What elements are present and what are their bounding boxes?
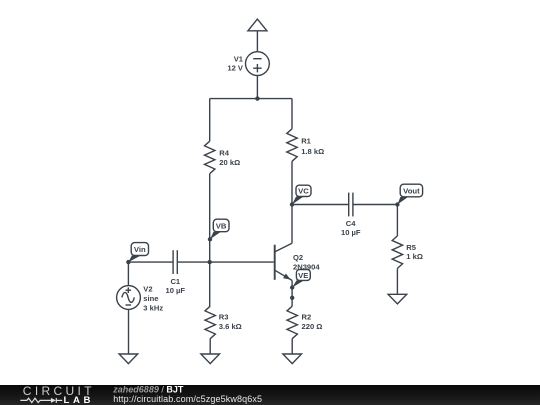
CircuitLab footer bar [0, 385, 540, 405]
node junction top rail [255, 96, 259, 100]
wire C1 to VB junction [177, 261, 209, 263]
label R4 20 kOhm [219, 149, 240, 168]
label C1 10 uF [166, 277, 186, 295]
label Q2 2N3904 [293, 253, 320, 272]
svg-text:3 kHz: 3 kHz [143, 304, 163, 313]
svg-text:10 µF: 10 µF [341, 228, 361, 237]
svg-text:sine: sine [143, 294, 158, 303]
ground under R5 [388, 294, 407, 304]
resistor R2 [287, 306, 297, 339]
wire VC to C4 [292, 204, 349, 206]
wire top rail to R1 [291, 99, 293, 129]
wire V1 bottom to top rail [256, 76, 258, 99]
svg-text:V2: V2 [143, 285, 152, 294]
wire R4 to VB node and input junction [209, 174, 211, 262]
transistor Q2 [275, 243, 292, 280]
svg-text:Q2: Q2 [293, 253, 303, 262]
svg-text:R2: R2 [302, 313, 312, 322]
wire C4 to Vout node [353, 204, 398, 206]
resistor R1 [287, 129, 297, 162]
wire Vin to C1 [128, 261, 173, 263]
resistor R5 [392, 236, 402, 269]
node VE dot [290, 285, 294, 289]
node label VE [292, 270, 310, 288]
label R5 1 kOhm [406, 243, 423, 261]
node label Vin [128, 243, 148, 263]
CircuitLab logo resistor squiggle and diode [20, 398, 62, 403]
svg-text:12 V: 12 V [227, 64, 244, 73]
svg-text:C1: C1 [170, 277, 180, 286]
wire top rail [210, 98, 292, 100]
wire junction down to R3 [209, 262, 211, 306]
node VB dot [208, 237, 212, 241]
svg-text:http://circuitlab.com/c5zge5kw: http://circuitlab.com/c5zge5kw8q6x5 [113, 394, 262, 404]
svg-text:220 Ω: 220 Ω [302, 322, 323, 331]
label R3 3.6 kOhm [219, 313, 242, 331]
svg-text:VC: VC [298, 187, 309, 196]
svg-text:VE: VE [298, 271, 308, 280]
node label Vout [397, 184, 422, 204]
resistor R3 [205, 306, 215, 339]
wire Vin node down to V2 [127, 262, 129, 286]
node label VB [210, 219, 229, 239]
wire R5 to ground [396, 268, 398, 294]
wire top rail to R4 [209, 99, 211, 142]
node emitter junction dot [290, 296, 294, 300]
voltage source V2 sine [117, 286, 141, 310]
label C4 10 uF [341, 219, 361, 237]
capacitor C4 [349, 193, 353, 217]
label R2 220 Ohm [302, 313, 323, 331]
svg-text:Vin: Vin [134, 245, 146, 254]
transistor Q2 collector wire [291, 205, 293, 244]
wire arrow to V1 top [256, 31, 258, 52]
svg-text:R4: R4 [219, 149, 229, 158]
node label VC [292, 185, 311, 204]
label R1 1.8 kOhm [301, 136, 324, 156]
capacitor C1 [173, 250, 177, 274]
ground under V2 [119, 354, 138, 364]
wire R1 to VC node [291, 161, 293, 204]
node VC dot [290, 202, 294, 206]
wire Vout node down to R5 [396, 205, 398, 236]
wire R2 to ground [291, 339, 293, 354]
label V1 12 V [227, 55, 244, 73]
svg-text:R5: R5 [406, 243, 416, 252]
svg-text:R3: R3 [219, 313, 229, 322]
svg-text:20 kΩ: 20 kΩ [219, 158, 240, 167]
power arrow (V1 positive supply marker) [248, 19, 267, 31]
resistor R4 [205, 141, 215, 174]
wire emitter down to R2 [291, 280, 293, 306]
wire R3 to ground [209, 339, 211, 354]
svg-text:R1: R1 [301, 136, 311, 145]
svg-text:V1: V1 [234, 55, 244, 64]
ground under R2 [283, 354, 302, 364]
node Vin junction dot [126, 260, 130, 264]
label V2 sine 3 kHz [143, 285, 163, 313]
svg-text:Vout: Vout [403, 186, 420, 195]
node Vout dot [395, 202, 399, 206]
svg-text:10 µF: 10 µF [166, 286, 186, 295]
svg-text:VB: VB [216, 221, 227, 230]
node junction VB column [208, 260, 212, 264]
wire junction to transistor base [210, 261, 274, 263]
svg-text:1 kΩ: 1 kΩ [406, 252, 423, 261]
voltage source V1 [246, 52, 270, 76]
wire V2 to ground [128, 309, 130, 354]
svg-text:1.8 kΩ: 1.8 kΩ [301, 147, 324, 156]
svg-text:LAB: LAB [64, 395, 95, 405]
ground under R3 [201, 354, 220, 364]
svg-text:3.6 kΩ: 3.6 kΩ [219, 322, 242, 331]
svg-text:C4: C4 [346, 219, 356, 228]
